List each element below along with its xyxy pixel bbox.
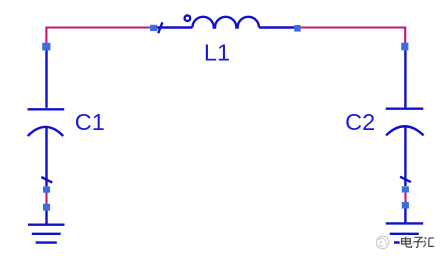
svg-text:C1: C1 [75, 109, 105, 135]
svg-text:C2: C2 [345, 109, 375, 135]
svg-text:L1: L1 [204, 40, 230, 66]
